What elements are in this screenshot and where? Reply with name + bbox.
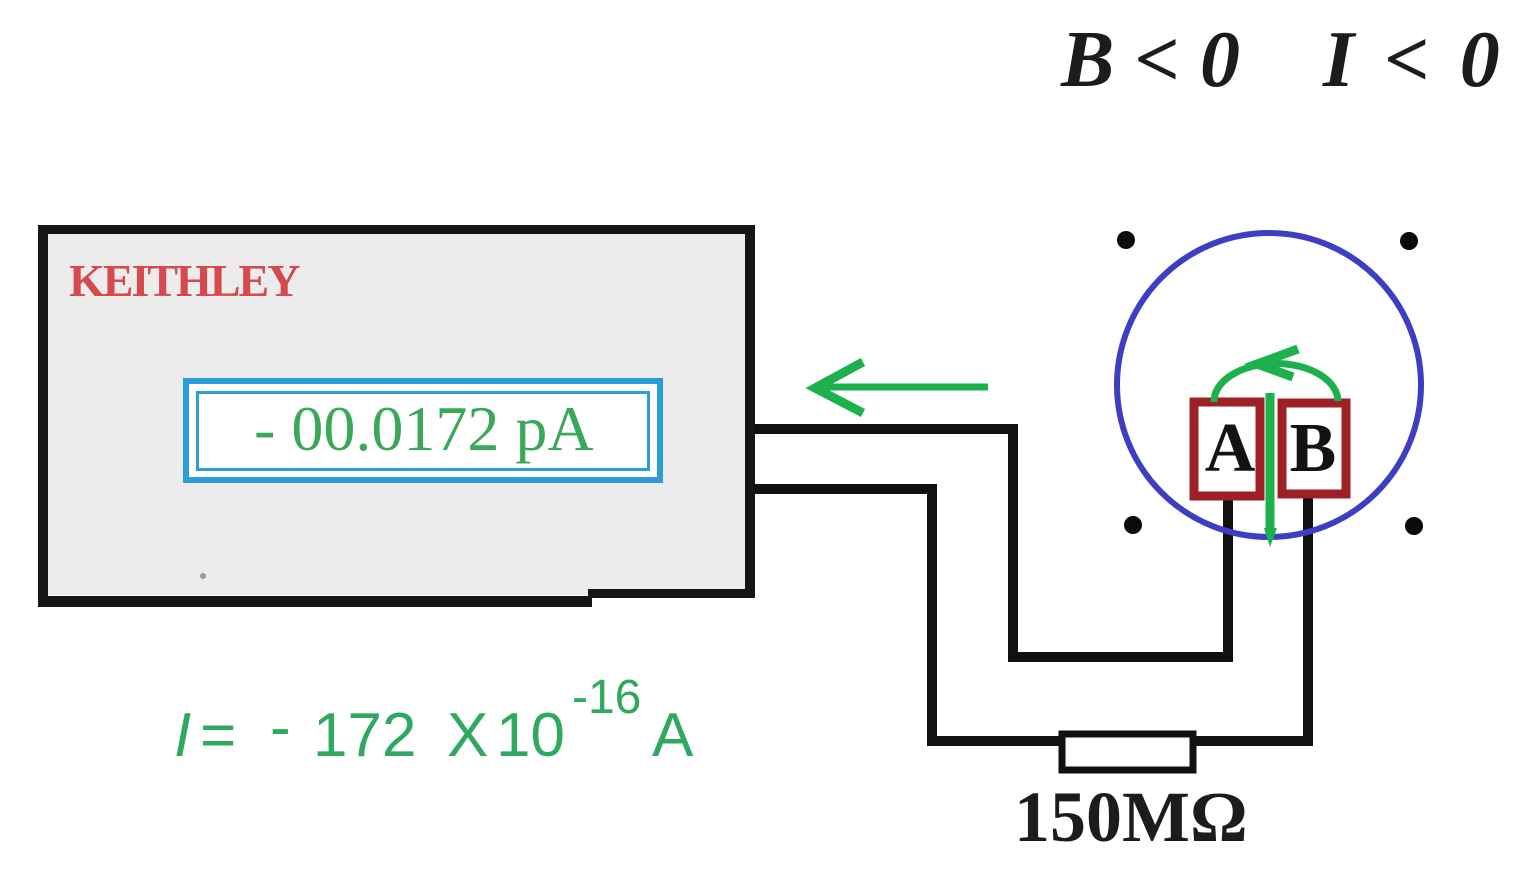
electrometer U1 body (Keithley) [38,225,755,607]
svg-text:=: = [200,701,236,770]
svg-text:- 00.0172 pA: - 00.0172 pA [254,393,594,464]
mounting dot top-left [1117,231,1135,249]
sample disc (blue circle) [1117,233,1421,537]
contact pad A [1194,402,1260,496]
mounting dot bottom-right [1405,517,1423,535]
svg-text:172: 172 [313,701,416,770]
mounting dot top-right [1400,232,1418,250]
svg-text:I < 0: I < 0 [1322,16,1505,104]
svg-text:-16: -16 [572,671,641,724]
contact pad B [1282,403,1346,494]
svg-text:A: A [1205,410,1256,487]
wire from meter LO terminal through resistor to contact B [753,489,1308,741]
svg-text:B: B [1290,410,1337,487]
wire from meter HI terminal to contact A [753,429,1228,657]
display bezel (blue) [183,378,663,483]
svg-text:A: A [652,701,694,770]
resistor R1 body [1062,734,1193,770]
svg-text:X: X [447,701,488,770]
svg-text:KEITHLEY: KEITHLEY [69,255,300,306]
svg-text:I: I [174,701,191,770]
green rotation arc (counterclockwise arrow) [1214,349,1338,402]
formula I = -172 X 10^-16 A [174,671,694,770]
svg-text:B < 0: B < 0 [1060,16,1240,104]
green arrow (current flow toward meter) [815,362,988,413]
svg-text:10: 10 [496,701,565,770]
svg-text:150MΩ: 150MΩ [1014,777,1248,857]
mounting dot bottom-left [1124,516,1142,534]
svg-text:-: - [270,693,291,762]
smudge dot inside meter [200,573,206,579]
green current line between A and B [1264,393,1277,547]
